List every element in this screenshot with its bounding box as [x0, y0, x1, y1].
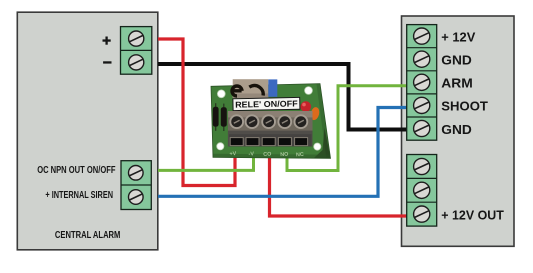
label: SHOOT [441, 99, 488, 114]
svg-text:-V: -V [248, 151, 254, 157]
wire: black GND from central alarm minus to right module GND [158, 64, 408, 130]
terminal block: central alarm siren/OC output [121, 161, 151, 210]
terminal block: right module 3-way output [407, 155, 437, 227]
svg-text:+V: +V [229, 151, 237, 157]
mounting hole bottom-left [217, 143, 224, 150]
right module box [402, 16, 515, 246]
svg-text:NO: NO [280, 152, 288, 159]
relay board label: RELE' ON/OFF [233, 97, 300, 110]
terminal block: central alarm +/- output [121, 27, 152, 75]
wire: red from relay board CO to right module +12V OUT [270, 150, 408, 216]
capacitor C1 (orange) on board [309, 106, 320, 121]
label: GND (row 5) [441, 122, 472, 137]
svg-text:ARM: ARM [441, 76, 473, 91]
svg-text:+ 12V OUT: + 12V OUT [441, 207, 504, 222]
diode D2 on board [221, 104, 227, 131]
svg-text:GND: GND [441, 53, 472, 68]
svg-text:SHOOT: SHOOT [441, 99, 488, 114]
relay K1 on board [232, 79, 277, 98]
LED DL1 (red) on board [301, 101, 312, 112]
label: ARM [441, 76, 473, 91]
svg-text:OC NPN OUT ON/OFF: OC NPN OUT ON/OFF [37, 165, 115, 176]
svg-text:+ 12V: + 12V [441, 29, 475, 44]
label: CENTRAL ALARM [55, 230, 121, 241]
svg-text:GND: GND [441, 122, 472, 137]
label: minus terminal [103, 61, 111, 63]
svg-text:NC: NC [296, 152, 304, 159]
wire: red +12V from central alarm plus to relay board +V [158, 39, 235, 186]
svg-text:CO: CO [263, 151, 271, 158]
svg-text:+ INTERNAL SIREN: + INTERNAL SIREN [45, 190, 113, 201]
wire: green from relay board NO to right module ARM [287, 86, 408, 171]
wire: blue from central alarm internal siren to right module SHOOT [158, 108, 408, 197]
label: plus terminal [103, 37, 111, 45]
label: + 12V [441, 29, 475, 44]
label: GND (row 2) [441, 53, 472, 68]
label: + 12V OUT [441, 207, 504, 222]
board pin label NC [296, 152, 304, 159]
wire: green from central alarm OC NPN OUT to relay board -V [158, 150, 254, 170]
board pin label NO [280, 152, 288, 159]
mounting hole bottom-right [314, 143, 321, 150]
terminal block TB1 on relay board (5-way) [228, 111, 313, 147]
board pin label +V [229, 151, 237, 157]
board pin label -V [248, 151, 254, 157]
mounting hole top-right [305, 87, 313, 95]
svg-text:CENTRAL ALARM: CENTRAL ALARM [55, 230, 121, 241]
diode D1 on board [213, 103, 219, 131]
left module: CENTRAL ALARM box [17, 12, 158, 250]
board pin label CO [263, 151, 271, 158]
label: + INTERNAL SIREN [45, 190, 113, 201]
relay board U1 (green PCB) [211, 84, 331, 159]
mounting hole top-left [217, 90, 225, 98]
svg-text:RELE' ON/OFF: RELE' ON/OFF [235, 98, 298, 109]
label: OC NPN OUT ON/OFF [37, 165, 115, 176]
terminal block: right module 5-way input [407, 25, 437, 141]
